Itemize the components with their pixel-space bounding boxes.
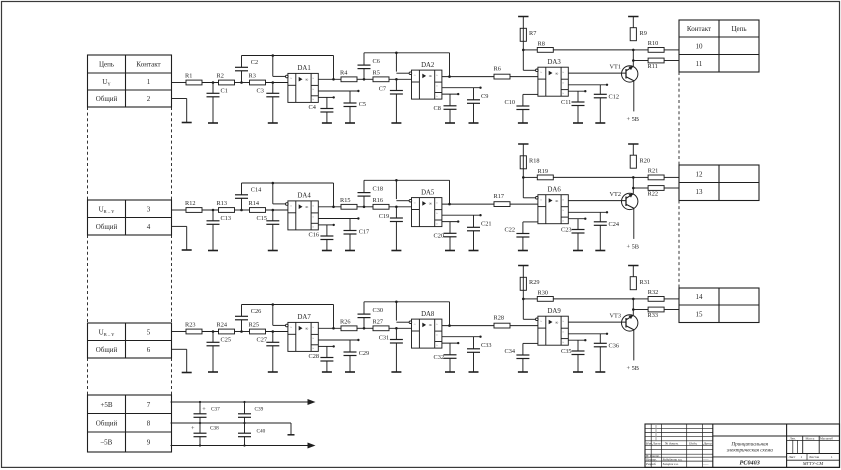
ground (445, 250, 455, 252)
svg-text:Общий: Общий (96, 419, 118, 427)
svg-text:6: 6 (147, 346, 151, 354)
feedback wire over DA2 (364, 53, 450, 77)
connector table pins 12-13 (679, 165, 759, 201)
connector table pins 3-4 (88, 200, 172, 235)
svg-text:R1: R1 (185, 73, 192, 80)
capacitor C26 (235, 305, 261, 332)
svg-text:C27: C27 (257, 337, 268, 344)
svg-text:R6: R6 (494, 65, 501, 72)
node (363, 206, 366, 209)
svg-text:R4: R4 (340, 70, 348, 77)
node (395, 78, 398, 81)
svg-text:∞: ∞ (305, 205, 308, 210)
capacitor C24 (594, 212, 620, 250)
wire (568, 200, 626, 202)
feedback wire over DA8 (364, 302, 450, 326)
title block lit/mass/scale cells (787, 436, 840, 466)
svg-text:R3: R3 (249, 73, 256, 80)
node (240, 330, 243, 333)
capacitor C1 (207, 83, 228, 124)
ground (322, 371, 332, 373)
svg-text:C35: C35 (561, 348, 572, 355)
wire (357, 206, 373, 208)
wire (632, 266, 634, 277)
wire (664, 49, 679, 51)
wire (318, 206, 341, 208)
wire collector (632, 50, 634, 66)
wire (172, 82, 187, 84)
wire to inverting input of DA9 (523, 299, 536, 319)
svg-text:≈: ≈ (414, 322, 416, 326)
svg-text:R26: R26 (340, 319, 351, 326)
svg-text:–5В: –5В (100, 439, 113, 447)
ground (573, 371, 583, 373)
feedback wire over DA1 (242, 56, 334, 80)
wire (357, 78, 373, 80)
pin stub (442, 87, 482, 89)
resistor R13 (217, 200, 235, 212)
svg-text:≈: ≈ (562, 81, 564, 85)
svg-text:Лист: Лист (789, 455, 796, 459)
svg-text:Лит.: Лит. (790, 436, 796, 440)
capacitor C22 (505, 222, 530, 251)
svg-text:DA1: DA1 (298, 65, 311, 72)
ground (595, 250, 605, 252)
power rail tap (628, 265, 638, 267)
ground (518, 371, 528, 373)
wire (442, 76, 494, 78)
svg-text:≈: ≈ (562, 198, 564, 202)
svg-text:+ 5В: + 5В (627, 244, 639, 251)
svg-text:МГТУ-СМ: МГТУ-СМ (802, 461, 825, 466)
wire (568, 321, 626, 323)
svg-text:R24: R24 (217, 322, 228, 329)
wire (664, 298, 679, 300)
node (632, 298, 635, 301)
svg-text:R8: R8 (538, 40, 545, 47)
svg-text:≈: ≈ (436, 343, 438, 347)
resistor R15 (340, 197, 357, 209)
power rail tap (518, 16, 528, 18)
svg-text:C5: C5 (359, 101, 366, 108)
wire (633, 298, 648, 300)
resistor R21 (648, 168, 664, 180)
svg-text:R10: R10 (648, 40, 659, 47)
wire (389, 327, 412, 329)
svg-text:≈: ≈ (436, 222, 438, 226)
arrow -5V (308, 443, 316, 449)
svg-text:VT1: VT1 (610, 63, 622, 70)
svg-text:C2: C2 (251, 59, 258, 66)
svg-text:C38: C38 (210, 426, 219, 432)
capacitor C12 (594, 85, 619, 123)
node (243, 401, 245, 403)
node (522, 49, 525, 52)
wire (172, 209, 187, 211)
svg-text:R17: R17 (494, 193, 505, 200)
svg-text:11: 11 (696, 60, 703, 68)
ground (268, 250, 278, 252)
svg-text:∞: ∞ (555, 198, 558, 203)
wire (442, 203, 494, 205)
capacitor C10 (505, 94, 530, 123)
svg-text:10: 10 (696, 42, 704, 50)
svg-text:≈: ≈ (312, 204, 314, 208)
wire (266, 82, 288, 84)
wire emitter (633, 81, 635, 112)
svg-text:14: 14 (696, 293, 704, 301)
capacitor C27 (257, 332, 280, 373)
capacitor C31 (379, 328, 403, 372)
resistor R20 (630, 155, 650, 168)
resistor R16 (373, 197, 390, 209)
svg-text:≈: ≈ (436, 322, 438, 326)
svg-text:VT2: VT2 (610, 191, 622, 198)
resistor R8 (537, 40, 553, 52)
svg-text:3: 3 (147, 205, 151, 213)
ground (445, 122, 455, 124)
power rail tap (518, 143, 528, 145)
svg-text:R20: R20 (640, 158, 651, 165)
svg-text:≈: ≈ (312, 326, 314, 330)
ground (182, 372, 192, 374)
node (272, 81, 275, 84)
svg-text:C1: C1 (221, 88, 228, 95)
svg-text:——: —— (702, 463, 709, 466)
connector boundary dashed line right (678, 72, 680, 288)
svg-text:R18: R18 (529, 158, 540, 165)
svg-text:Масса: Масса (806, 436, 815, 440)
node (243, 444, 245, 446)
svg-text:РС0403: РС0403 (740, 460, 760, 467)
svg-text:∞: ∞ (429, 323, 432, 328)
svg-text:C39: C39 (255, 407, 264, 413)
pin stub (568, 90, 586, 92)
ground (182, 249, 192, 251)
svg-text:Общий: Общий (96, 346, 118, 354)
capacitor C15 (257, 210, 280, 251)
node (240, 81, 243, 84)
connector table pins 14-15 (679, 288, 759, 323)
pin stub (318, 224, 335, 226)
node (363, 327, 366, 330)
svg-text:≈: ≈ (312, 87, 314, 91)
svg-text:DA4: DA4 (298, 193, 312, 200)
svg-text:R22: R22 (648, 190, 659, 197)
svg-text:R7: R7 (529, 30, 536, 37)
svg-text:≈: ≈ (436, 73, 438, 77)
capacitor C19 (379, 207, 403, 251)
pin stub (442, 93, 460, 95)
svg-text:R16: R16 (373, 197, 384, 204)
resistor R1 (185, 73, 202, 85)
ground (345, 371, 355, 373)
wire (553, 49, 633, 51)
svg-text:Общий: Общий (96, 223, 118, 231)
node (632, 187, 635, 190)
resistor R6 (494, 65, 511, 79)
ground (518, 122, 528, 124)
wire (664, 187, 679, 189)
wire (664, 176, 679, 178)
capacitor C34 (505, 343, 530, 372)
pin stub (318, 96, 335, 98)
pin stub (568, 84, 608, 86)
wire -5V rail (171, 445, 314, 447)
node (272, 330, 275, 333)
svg-text:≈: ≈ (312, 336, 314, 340)
capacitor C5 (344, 91, 367, 123)
svg-text:R25: R25 (249, 322, 260, 329)
node (395, 179, 398, 182)
svg-text:≈: ≈ (562, 209, 564, 213)
ground (469, 371, 479, 373)
resistor R33 (648, 307, 665, 319)
svg-text:≈: ≈ (414, 73, 416, 77)
svg-text:C25: C25 (221, 337, 232, 344)
node (212, 81, 215, 84)
svg-text:5: 5 (147, 328, 151, 336)
node (522, 176, 525, 179)
svg-text:≈: ≈ (290, 204, 292, 208)
svg-text:+ 5В: + 5В (627, 116, 639, 123)
wire (633, 49, 648, 51)
resistor R28 (494, 314, 511, 328)
capacitor C30 (358, 302, 384, 329)
capacitor C39 (238, 402, 264, 423)
resistor R19 (537, 168, 553, 180)
wire (633, 60, 648, 62)
resistor R29 (520, 277, 539, 290)
pin stub (318, 345, 335, 347)
svg-text:C4: C4 (309, 104, 317, 111)
resistor R12 (185, 200, 202, 212)
ground (268, 122, 278, 124)
node (272, 54, 275, 57)
svg-text:≈: ≈ (436, 212, 438, 216)
capacitor C7 (379, 79, 403, 123)
svg-text:+: + (202, 406, 206, 413)
wire (522, 266, 524, 299)
svg-text:DA6: DA6 (548, 187, 562, 194)
pin stub (568, 211, 608, 213)
wire (357, 327, 373, 329)
ground (469, 122, 479, 124)
capacitor C29 (344, 340, 370, 372)
resistor R14 (249, 200, 266, 212)
wire (633, 176, 648, 178)
svg-text:≈: ≈ (290, 77, 292, 81)
resistor R32 (648, 289, 664, 301)
svg-text:C37: C37 (211, 407, 220, 413)
ground (573, 122, 583, 124)
feedback wire over DA7 (242, 305, 334, 329)
svg-text:C31: C31 (379, 335, 390, 342)
svg-text:C20: C20 (434, 232, 445, 239)
wire (235, 82, 250, 84)
node (448, 203, 451, 206)
svg-text:C29: C29 (359, 350, 370, 357)
node (395, 206, 398, 209)
svg-text:R29: R29 (529, 279, 540, 286)
svg-text:≈: ≈ (540, 198, 542, 202)
op-amp DA6 (536, 187, 569, 224)
wire (202, 331, 219, 333)
pin stub (523, 93, 538, 95)
wire common return (172, 226, 187, 250)
svg-text:2: 2 (147, 95, 151, 103)
svg-text:Бабайкина н.в.: Бабайкина н.в. (662, 457, 683, 462)
ground (208, 250, 218, 252)
svg-text:≈: ≈ (312, 215, 314, 219)
svg-text:C11: C11 (561, 99, 571, 106)
wire (632, 144, 634, 155)
svg-text:Цепь: Цепь (99, 61, 114, 69)
pin stub (318, 90, 359, 92)
resistor R18 (520, 156, 539, 169)
wire +5V rail (171, 401, 314, 403)
svg-text:C13: C13 (221, 215, 232, 222)
svg-text:+ 5В: + 5В (627, 365, 639, 372)
svg-text:R14: R14 (249, 200, 260, 207)
svg-text:C7: C7 (379, 86, 386, 93)
svg-text:C30: C30 (373, 307, 384, 314)
capacitor C20 (434, 222, 457, 251)
capacitor C21 (467, 215, 492, 250)
svg-text:≈: ≈ (540, 70, 542, 74)
capacitor C38 (polarized) (191, 423, 219, 446)
svg-text:≈: ≈ (290, 326, 292, 330)
feedback wire over DA4 (242, 183, 334, 207)
op-amp DA5 (409, 189, 442, 226)
svg-text:C33: C33 (481, 342, 492, 349)
node (212, 209, 215, 212)
svg-text:≈: ≈ (312, 77, 314, 81)
node (448, 75, 451, 78)
capacitor C13 (207, 210, 232, 251)
capacitor C25 (207, 332, 232, 373)
svg-text:+5В: +5В (100, 401, 112, 409)
ground (391, 371, 401, 373)
svg-text:Масштаб: Масштаб (820, 436, 833, 440)
capacitor C3 (257, 83, 280, 124)
svg-text:1: 1 (147, 78, 151, 86)
svg-text:∞: ∞ (305, 77, 308, 82)
svg-text:8: 8 (147, 419, 151, 427)
svg-text:R21: R21 (648, 168, 659, 175)
node (395, 52, 398, 55)
ground (182, 122, 192, 124)
node (212, 330, 215, 333)
ground (595, 122, 605, 124)
resistor R10 (648, 40, 664, 52)
ground (322, 250, 332, 252)
pin stub (318, 339, 359, 341)
wire (202, 209, 219, 211)
svg-text:Захаров е.а.: Захаров е.а. (663, 462, 679, 466)
svg-text:R31: R31 (640, 279, 651, 286)
title block left grid (645, 424, 713, 467)
ground (268, 371, 278, 373)
svg-text:13: 13 (696, 188, 704, 196)
svg-text:≈: ≈ (312, 347, 314, 351)
node (448, 324, 451, 327)
svg-text:≈: ≈ (562, 92, 564, 96)
connector table XS1 pins 1-2 (header) (88, 55, 172, 107)
op-amp DA1 (286, 65, 319, 102)
pin stub (523, 221, 538, 223)
wire (266, 331, 288, 333)
svg-text:7: 7 (147, 401, 151, 409)
svg-text:C26: C26 (251, 308, 261, 315)
svg-text:R27: R27 (373, 319, 384, 326)
op-amp DA2 (409, 62, 442, 99)
resistor R17 (494, 193, 511, 207)
svg-text:≈: ≈ (414, 201, 416, 205)
svg-text:R32: R32 (648, 289, 659, 296)
node (199, 422, 201, 424)
ground (518, 250, 528, 252)
connector table pins 5-6 (88, 323, 172, 358)
resistor R7 (520, 28, 536, 41)
resistor R3 (249, 73, 266, 85)
svg-text:C14: C14 (251, 186, 262, 193)
svg-text:∞: ∞ (305, 326, 308, 331)
resistor R30 (537, 289, 553, 301)
svg-text:DA5: DA5 (421, 189, 435, 196)
wire (633, 309, 648, 311)
wire (510, 76, 538, 78)
node (199, 444, 201, 446)
capacitor C37 (polarized) (194, 402, 221, 423)
ground (595, 371, 605, 373)
wire (568, 72, 626, 74)
resistor R25 (249, 322, 266, 334)
node (332, 327, 335, 330)
wire common return (172, 99, 187, 123)
pin stub (442, 214, 482, 216)
svg-text:C23: C23 (561, 226, 572, 233)
capacitor C6 (358, 53, 380, 80)
svg-text:C24: C24 (609, 221, 620, 228)
ground (391, 250, 401, 252)
svg-text:Цепь: Цепь (731, 25, 746, 33)
svg-text:C17: C17 (359, 229, 370, 236)
node (522, 298, 525, 301)
wire (664, 60, 679, 62)
svg-text:15: 15 (696, 310, 704, 318)
svg-text:C19: C19 (379, 213, 390, 220)
op-amp DA3 (536, 59, 569, 96)
node (632, 59, 635, 62)
svg-text:+: + (191, 425, 195, 432)
svg-text:C6: C6 (373, 58, 380, 65)
wire (442, 325, 494, 327)
node (632, 176, 635, 179)
title block document name (713, 436, 840, 467)
wire (510, 203, 538, 205)
svg-text:R12: R12 (185, 200, 196, 207)
node (240, 209, 243, 212)
node (363, 78, 366, 81)
power rail tap (628, 143, 638, 145)
resistor R23 (185, 322, 202, 334)
svg-text:VT3: VT3 (610, 312, 622, 319)
node (632, 308, 635, 311)
svg-text:Провер.: Провер. (645, 458, 657, 462)
capacitor C2 (235, 56, 258, 83)
capacitor C8 (434, 94, 457, 123)
